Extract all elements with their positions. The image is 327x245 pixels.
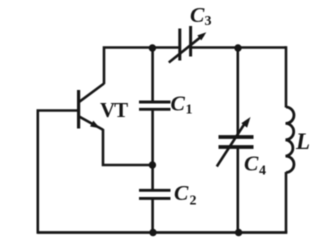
wire C4 branch top	[237, 48, 240, 137]
svg-text:VT: VT	[100, 98, 128, 122]
label C4	[244, 152, 266, 179]
wire C4 to bottom rail	[237, 148, 240, 233]
wire bottom rail	[38, 231, 287, 234]
capacitor C4 (variable)	[217, 117, 254, 167]
svg-text:C: C	[171, 92, 186, 116]
node bottom C2 junction	[149, 229, 156, 236]
wire right vertical bottom	[285, 172, 288, 233]
node top-right junction	[234, 44, 241, 51]
wire C1 to C2	[151, 111, 154, 190]
label C1	[171, 92, 193, 118]
svg-text:2: 2	[190, 194, 197, 209]
label C2	[174, 181, 197, 209]
wire emitter to node A	[103, 129, 153, 165]
svg-text:C: C	[244, 152, 259, 176]
svg-text:C: C	[174, 181, 189, 205]
transistor VT	[79, 84, 104, 130]
svg-text:C: C	[190, 3, 205, 27]
capacitor C2	[139, 190, 171, 198]
node A emitter junction	[149, 161, 156, 168]
inductor L	[286, 107, 294, 173]
label C3	[190, 3, 212, 29]
wire top rail right of C3	[191, 46, 286, 49]
capacitor C1	[139, 102, 171, 109]
svg-text:1: 1	[186, 103, 193, 118]
wire C1 branch top	[151, 48, 154, 101]
wire collector to top rail	[104, 48, 180, 85]
svg-text:L: L	[295, 129, 310, 154]
svg-text:4: 4	[259, 164, 266, 179]
node bottom C4 junction	[235, 229, 242, 236]
wire base to bottom rail	[38, 111, 79, 234]
wire C2 to bottom rail	[151, 200, 154, 233]
svg-text:3: 3	[205, 14, 212, 29]
node top-left junction	[149, 44, 156, 51]
wire right vertical top	[285, 46, 288, 107]
capacitor C3 (variable)	[169, 26, 207, 63]
